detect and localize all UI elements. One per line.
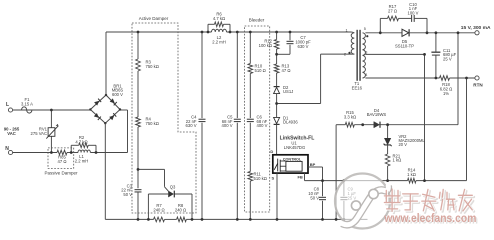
svg-text:630 V: 630 V: [298, 44, 309, 49]
svg-text:4.7 kΩ: 4.7 kΩ: [213, 16, 225, 21]
svg-text:3.3 kΩ: 3.3 kΩ: [344, 114, 356, 119]
svg-text:1: 1: [345, 28, 347, 32]
svg-text:25 V: 25 V: [443, 57, 452, 62]
svg-text:4.7 kΩ: 4.7 kΩ: [75, 140, 87, 145]
svg-text:S: S: [271, 176, 274, 181]
svg-text:100 V: 100 V: [408, 10, 419, 15]
svg-text:RTN: RTN: [473, 83, 483, 88]
svg-text:LinkSwitch-FL: LinkSwitch-FL: [280, 136, 315, 142]
svg-text:2: 2: [344, 52, 346, 56]
svg-text:Bleeder: Bleeder: [249, 18, 265, 23]
svg-text:LNK457DG: LNK457DG: [284, 145, 305, 150]
svg-text:15 V, 300 mA: 15 V, 300 mA: [461, 25, 491, 31]
svg-text:5: 5: [364, 27, 366, 31]
svg-text:50 V: 50 V: [310, 196, 319, 201]
svg-text:50 V: 50 V: [123, 192, 132, 197]
svg-text:BAV19WS: BAV19WS: [367, 112, 387, 117]
svg-text:750 kΩ: 750 kΩ: [146, 121, 159, 126]
svg-text:Active Damper: Active Damper: [139, 16, 169, 21]
svg-text:N: N: [5, 146, 9, 152]
svg-text:600 V: 600 V: [112, 92, 123, 97]
svg-text:DL4936: DL4936: [283, 120, 298, 125]
svg-text:Passive Damper: Passive Damper: [44, 171, 78, 176]
svg-text:US1J: US1J: [283, 89, 293, 94]
svg-text:VAC: VAC: [7, 131, 16, 136]
svg-text:3: 3: [365, 50, 367, 54]
svg-text:510 kΩ: 510 kΩ: [254, 176, 267, 181]
svg-text:240 Ω: 240 Ω: [153, 207, 164, 212]
svg-text:EE16: EE16: [352, 86, 363, 91]
svg-text:FB: FB: [297, 174, 302, 179]
svg-text:47 Ω: 47 Ω: [58, 159, 67, 164]
svg-text:2.2 mH: 2.2 mH: [75, 159, 89, 164]
svg-text:47 Ω: 47 Ω: [282, 68, 291, 73]
svg-text:240 Ω: 240 Ω: [175, 207, 186, 212]
svg-text:4: 4: [365, 73, 367, 77]
svg-text:SS110-TP: SS110-TP: [395, 43, 414, 48]
svg-text:CONTROL: CONTROL: [283, 157, 302, 161]
svg-text:510 Ω: 510 Ω: [255, 68, 266, 73]
svg-text:27 Ω: 27 Ω: [388, 9, 397, 14]
svg-text:1%: 1%: [443, 91, 449, 96]
svg-text:20 V: 20 V: [399, 142, 408, 147]
svg-text:1 kΩ: 1 kΩ: [407, 172, 416, 177]
svg-text:100 kΩ: 100 kΩ: [259, 43, 272, 48]
svg-text:1 kΩ: 1 kΩ: [393, 158, 402, 163]
svg-text:L: L: [6, 102, 9, 108]
svg-text:630 V: 630 V: [186, 123, 197, 128]
svg-text:400 V: 400 V: [222, 123, 233, 128]
svg-text:750 kΩ: 750 kΩ: [146, 64, 159, 69]
svg-text:3.15 A: 3.15 A: [21, 102, 33, 107]
svg-text:400 V: 400 V: [257, 123, 268, 128]
svg-text:2.2 mH: 2.2 mH: [212, 39, 226, 44]
svg-text:BP: BP: [310, 162, 316, 167]
svg-text:275 VAC: 275 VAC: [31, 131, 47, 136]
svg-text:www.elecfans.com: www.elecfans.com: [384, 211, 477, 225]
svg-text:Q3: Q3: [170, 184, 176, 189]
svg-text:D: D: [270, 149, 273, 154]
